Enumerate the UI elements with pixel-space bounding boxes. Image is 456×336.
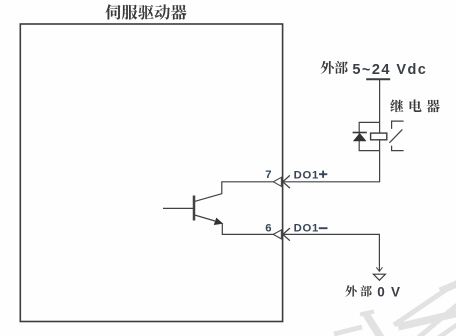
svg-text:7: 7: [265, 169, 271, 181]
wire DO1+ to relay: [283, 79, 380, 182]
wire DO1- to external 0V: [283, 234, 380, 271]
relay K1 coil: [371, 133, 387, 140]
svg-text:5~24 Vdc: 5~24 Vdc: [352, 62, 427, 78]
label 外部 5~24 Vdc: [321, 61, 428, 78]
transistor Q1 emitter: [195, 215, 215, 221]
pin 6 wire arrowhead: [283, 228, 290, 241]
watermark: [334, 281, 456, 336]
label 继电器 (relay): [390, 99, 439, 112]
transistor Q1 body bar: [193, 196, 196, 221]
transistor Q1 base wire: [163, 207, 195, 209]
svg-text:DO1: DO1: [294, 223, 319, 235]
relay switch bottom contact: [392, 146, 404, 151]
svg-text:6: 6: [265, 223, 271, 235]
label 外部 0 V: [345, 284, 401, 299]
ground arrow terminal (外部 0 V): [373, 274, 385, 280]
diode D1 triangle: [353, 133, 366, 141]
relay switch lever: [389, 129, 402, 142]
transistor Q1 collector + wire to pin 7: [195, 182, 274, 202]
label 伺服驱动器 (servo drive): [105, 4, 186, 19]
power rail terminal bar: [366, 78, 390, 80]
svg-text:0 V: 0 V: [377, 284, 401, 299]
svg-text:DO1: DO1: [294, 170, 319, 182]
transistor Q1 emitter arrowhead: [214, 218, 222, 225]
relay switch top contact: [392, 121, 404, 129]
diode D1 cathode bar: [353, 132, 367, 134]
wire emitter to pin 6: [222, 223, 273, 234]
servo drive box: [20, 24, 282, 322]
pin 7 terminal triangle: [273, 177, 281, 186]
ground wire arrowhead: [376, 267, 382, 271]
relay K1 branch bracket: [359, 122, 379, 150]
pin 6 terminal triangle: [273, 230, 281, 239]
pin 7 wire arrowhead: [283, 175, 290, 188]
